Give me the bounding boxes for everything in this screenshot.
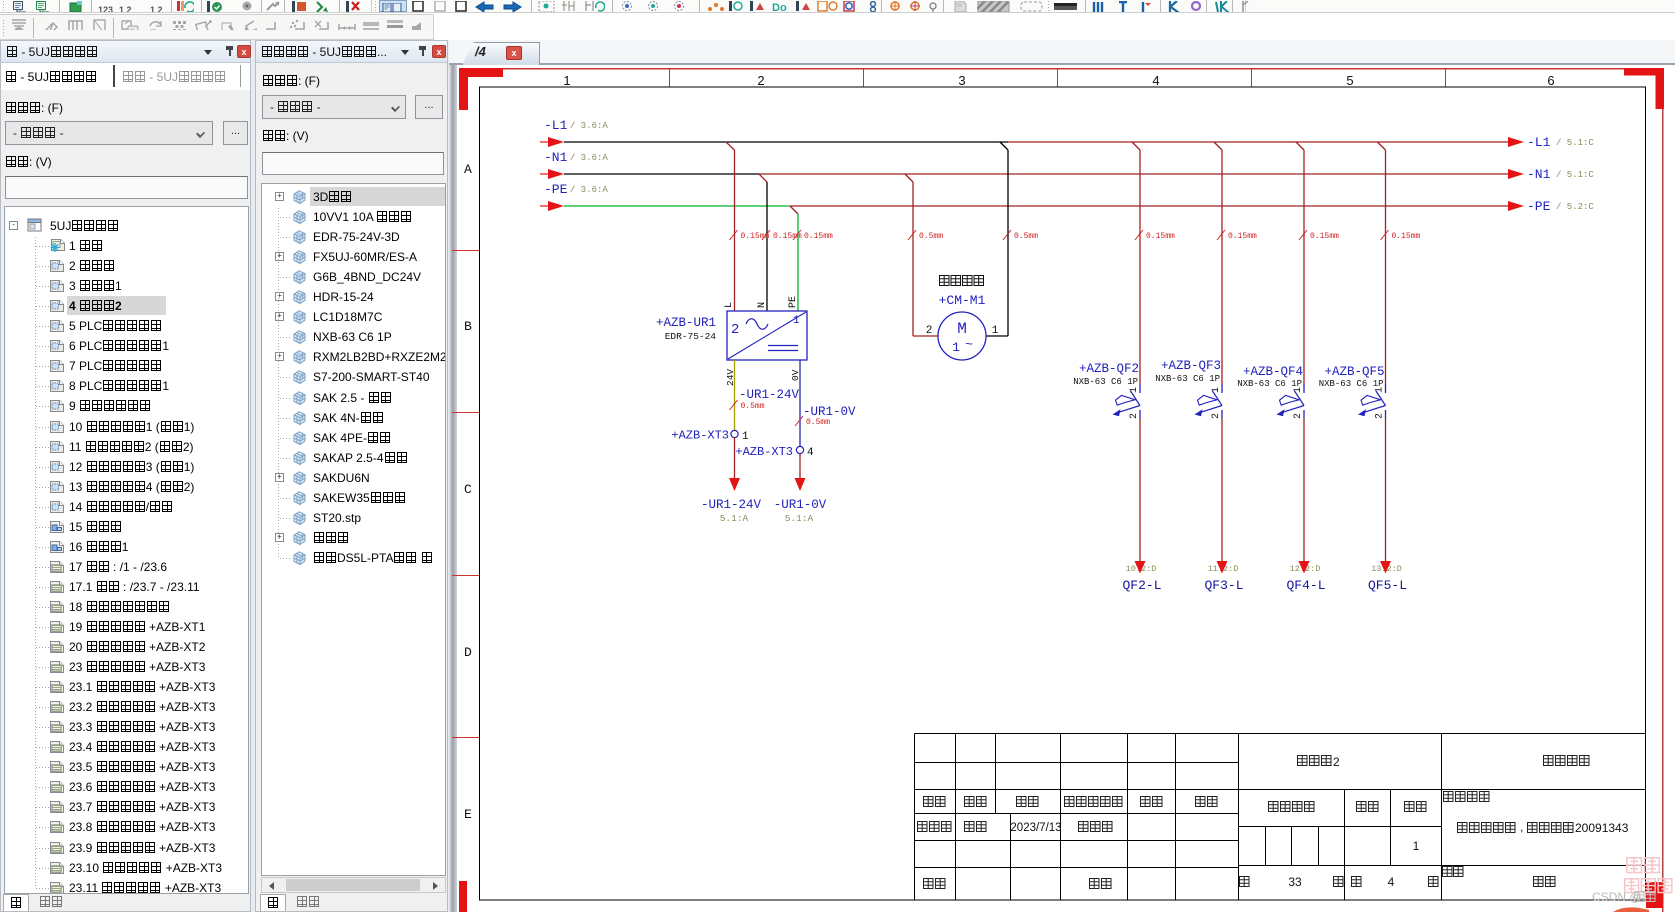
svg-text:PE: PE [788, 296, 799, 308]
svg-text:EDR-75-24: EDR-75-24 [665, 331, 717, 342]
svg-text:QF5-L: QF5-L [1368, 578, 1407, 593]
svg-text:~: ~ [965, 337, 973, 352]
svg-text:1: 1 [793, 315, 800, 327]
column ruler ticks [669, 68, 1446, 87]
wire gauge label 0.15mm [762, 230, 802, 241]
svg-text:E: E [464, 807, 472, 822]
svg-text:/ 5.1:C: / 5.1:C [1556, 138, 1594, 148]
svg-text:QF4-L: QF4-L [1286, 578, 1325, 593]
svg-text:0.15mm: 0.15mm [804, 232, 833, 241]
svg-text:2023/7/13: 2023/7/13 [1010, 822, 1061, 834]
horizontal scrollbar [261, 877, 446, 893]
interruption point arrow -N1 (right) [1508, 169, 1524, 179]
svg-text:/ 5.1:C: / 5.1:C [1556, 170, 1594, 180]
svg-text:2: 2 [1129, 413, 1140, 419]
net label -PE (right) [1527, 199, 1594, 214]
svg-text:L: L [724, 302, 735, 308]
PSU DC symbol [768, 346, 798, 351]
svg-text:A: A [464, 162, 472, 177]
wire gauge label 0.15mm [1299, 230, 1339, 241]
wire drop L1 to motor pin1 [986, 142, 1008, 336]
svg-text:B: B [464, 319, 472, 334]
svg-text:1: 1 [563, 73, 570, 88]
wire bus L1 red autoconnect segment [1008, 141, 1508, 143]
watermark [1627, 858, 1660, 873]
wire gauge label 0.5mm [1003, 230, 1038, 241]
svg-text:0.5mm: 0.5mm [919, 232, 943, 241]
wire gauge label 0.15mm [1135, 230, 1175, 241]
wire gauge label 0.15mm [793, 230, 833, 241]
svg-text:2: 2 [731, 322, 739, 338]
net label -N1 (left) [544, 150, 608, 165]
circuit breaker +AZB-QF3 [1155, 359, 1222, 419]
svg-text:-PE: -PE [544, 182, 568, 197]
left panel 1 [0, 40, 251, 912]
svg-text:+AZB-QF2: +AZB-QF2 [1079, 362, 1139, 376]
svg-text:1: 1 [952, 340, 960, 355]
svg-text:+AZB-UR1: +AZB-UR1 [656, 316, 716, 330]
page border red line right [1662, 68, 1663, 912]
sheet arrow QF2-L down [1135, 561, 1146, 574]
editor tab bar [449, 40, 1675, 65]
svg-text:0.15mm: 0.15mm [773, 232, 802, 241]
svg-text:/ 5.2:C: / 5.2:C [1556, 202, 1594, 212]
svg-text:1: 1 [992, 325, 999, 337]
svg-text:0.5mm: 0.5mm [806, 418, 830, 427]
svg-text:NXB-63 C6 1P: NXB-63 C6 1P [1073, 377, 1138, 387]
circuit breaker +AZB-QF5 [1319, 365, 1386, 419]
wire +AZB-QF4 down [1303, 419, 1305, 562]
net label -UR1-0V bottom [774, 498, 827, 524]
svg-text:/ 3.6:A: / 3.6:A [570, 185, 608, 195]
terminal XT3:1 [671, 429, 749, 444]
column numbers [563, 73, 1554, 88]
svg-text:+AZB-QF3: +AZB-QF3 [1161, 359, 1221, 373]
sheet arrow QF4-L down [1299, 561, 1310, 574]
power supply U1 +AZB-UR1 EDR-75-24 [727, 311, 807, 360]
svg-text:5.1:A: 5.1:A [720, 513, 749, 524]
wire bus N1 black segment [564, 173, 759, 175]
svg-text:2: 2 [1333, 755, 1340, 769]
wire 24V output [734, 360, 736, 431]
svg-text:-N1: -N1 [544, 150, 568, 165]
wire gauge label 0.15mm [1217, 230, 1257, 241]
svg-text:+AZB-QF5: +AZB-QF5 [1324, 365, 1384, 379]
wire gauge label 0.5mm [795, 416, 830, 427]
wire bus N1 red autoconnect segment [759, 173, 1508, 175]
wire bus PE green segment [564, 205, 790, 207]
top toolbar row 1 [0, 0, 1675, 13]
svg-text:-L1: -L1 [544, 118, 568, 133]
row ruler ticks [452, 250, 479, 738]
sheet arrow -UR1-0V down [795, 478, 806, 491]
svg-text:2: 2 [1211, 413, 1222, 419]
drawing area background [449, 40, 1675, 912]
corner mark top-left [459, 68, 503, 110]
svg-text:0.15mm: 0.15mm [1310, 232, 1339, 241]
drawing frame [480, 87, 1646, 900]
wire XT3:1 down [734, 438, 736, 480]
interruption point arrow -N1 (left) [540, 169, 564, 179]
terminal XT3:4 [735, 445, 814, 459]
circuit breaker +AZB-QF4 [1237, 365, 1304, 419]
page border red line top [462, 68, 1663, 69]
corner mark bottom-left [459, 881, 467, 912]
sheet arrow QF3-L down [1217, 561, 1228, 574]
svg-text:QF3-L: QF3-L [1204, 578, 1243, 593]
sheet arrow QF5-L down [1380, 561, 1391, 574]
net label -UR1-24V bottom [701, 498, 762, 524]
svg-text:2: 2 [1375, 413, 1386, 419]
svg-text:+AZB-XT3: +AZB-XT3 [735, 445, 793, 459]
wire gauge label 0.5mm [908, 230, 943, 241]
net label -L1 (left) [544, 118, 608, 133]
svg-text:NXB-63 C6 1P: NXB-63 C6 1P [1155, 374, 1220, 384]
svg-text:5.1:A: 5.1:A [785, 513, 814, 524]
interruption point arrow -L1 (left) [540, 137, 564, 147]
svg-text:D: D [464, 645, 472, 660]
wire XT3:4 down [799, 454, 801, 480]
svg-text:2: 2 [757, 73, 764, 88]
svg-text:1: 1 [1413, 839, 1420, 853]
wire 0V output [799, 360, 801, 447]
svg-text:-PE: -PE [1527, 199, 1551, 214]
svg-text:QF2-L: QF2-L [1122, 578, 1161, 593]
wire drop L1 to QF5 [1378, 142, 1386, 384]
svg-text:33: 33 [1288, 875, 1302, 889]
corner mark bottom-right [1646, 882, 1663, 908]
wire drop PE to PSU [790, 206, 798, 311]
interruption point arrow -L1 (right) [1508, 137, 1524, 147]
svg-text:+CM-M1: +CM-M1 [939, 293, 986, 308]
svg-text:3: 3 [958, 73, 965, 88]
wire gauge label 0.15mm [1381, 230, 1421, 241]
interruption point arrow -PE (right) [1508, 201, 1524, 211]
net label -N1 (right) [1527, 167, 1594, 182]
net label -L1 (right) [1527, 135, 1594, 150]
svg-text:-UR1-0V: -UR1-0V [803, 405, 856, 419]
net label -PE (left) [544, 182, 608, 197]
svg-text:0.15mm: 0.15mm [1146, 232, 1175, 241]
wire +AZB-QF5 down [1385, 419, 1387, 562]
svg-text:-UR1-0V: -UR1-0V [774, 498, 827, 512]
interruption point arrow -PE (left) [540, 201, 564, 211]
vertical sash [449, 65, 457, 912]
wire drop L1 to QF3 [1214, 142, 1222, 384]
svg-text:2: 2 [926, 325, 933, 337]
wire drop N to PSU [759, 174, 767, 311]
corner mark top-right [1624, 68, 1664, 109]
svg-text:,: , [1520, 820, 1523, 834]
motor M1 circle [938, 312, 986, 360]
svg-text:N: N [757, 302, 768, 308]
wire +AZB-QF2 down [1139, 419, 1141, 562]
svg-text:6: 6 [1547, 73, 1554, 88]
toolbar row 2 [0, 14, 434, 40]
wire drop N1 to motor pin2 [905, 174, 938, 336]
svg-text:C: C [464, 482, 472, 497]
svg-text:-UR1-24V: -UR1-24V [739, 388, 800, 402]
wire bus PE red autoconnect segment [790, 205, 1508, 207]
svg-text:/ 3.6:A: / 3.6:A [570, 121, 608, 131]
svg-text:1: 1 [742, 431, 749, 443]
sheet arrow -UR1-24V down [729, 478, 740, 491]
wire drop L to PSU [726, 142, 735, 311]
wire drop L1 to QF2 [1132, 142, 1140, 384]
svg-text:5: 5 [1346, 73, 1353, 88]
svg-text:-L1: -L1 [1527, 135, 1551, 150]
svg-text:/ 3.6:A: / 3.6:A [570, 153, 608, 163]
wire bus L1 black segment [564, 141, 1008, 143]
wire gauge label 0.5mm [730, 400, 765, 411]
left panel 2 : 布局空间 [255, 40, 448, 912]
svg-text:20091343: 20091343 [1575, 821, 1629, 835]
svg-text:0.5mm: 0.5mm [1014, 232, 1038, 241]
svg-text:4: 4 [1152, 73, 1159, 88]
svg-text:M: M [957, 320, 967, 338]
svg-text:-N1: -N1 [1527, 167, 1551, 182]
wire +AZB-QF3 down [1221, 419, 1223, 562]
title block texts [918, 756, 1590, 889]
circuit breaker +AZB-QF2 [1073, 362, 1140, 419]
svg-text:4: 4 [807, 447, 814, 459]
svg-text:0.15mm: 0.15mm [1228, 232, 1257, 241]
svg-text:4: 4 [1388, 875, 1395, 889]
svg-text:-UR1-24V: -UR1-24V [701, 498, 762, 512]
motor CM-M1 label 散热风扇 [940, 276, 984, 286]
svg-text:+AZB-QF4: +AZB-QF4 [1243, 365, 1303, 379]
svg-text:2: 2 [1293, 413, 1304, 419]
wire gauge label 0.15mm [730, 230, 770, 241]
row letters [464, 162, 472, 822]
svg-text:+AZB-XT3: +AZB-XT3 [671, 429, 729, 443]
title block grid [915, 734, 1646, 901]
wire drop L1 to QF4 [1296, 142, 1304, 384]
svg-text:0.5mm: 0.5mm [741, 402, 765, 411]
svg-text:0.15mm: 0.15mm [1392, 232, 1421, 241]
